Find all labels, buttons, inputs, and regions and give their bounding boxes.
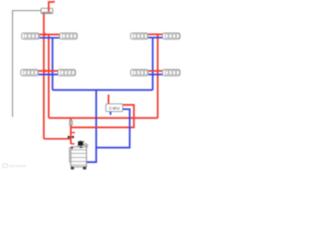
wire riser A red	[43, 14, 45, 139]
radiator R7	[131, 70, 149, 76]
svg-text:cad rysunek: cad rysunek	[9, 164, 27, 168]
wire feed from riser A red	[44, 138, 71, 140]
wire right return riser blue	[152, 38, 154, 90]
wire boiler inlet stub red	[71, 143, 75, 145]
flow arrow row2	[45, 69, 48, 72]
wire wall line gray	[13, 11, 42, 117]
cylinder CWU box	[106, 104, 123, 112]
expansion tank T1	[41, 8, 53, 13]
radiator R3	[131, 33, 149, 39]
svg-text:C.W.U: C.W.U	[109, 107, 120, 111]
burner assembly on boiler top	[78, 141, 83, 146]
wire main flow header red	[49, 117, 158, 119]
valve V2 bowtie at boiler inlet	[68, 136, 74, 139]
radiator R6	[58, 70, 76, 76]
wire left return riser blue	[52, 38, 54, 90]
flow arrow row1	[45, 33, 48, 36]
wire return collector blue	[53, 89, 153, 91]
wire row2 right flow red	[148, 70, 162, 72]
valve V1 on feed drop	[69, 121, 72, 125]
wire row1 left flow red	[39, 34, 60, 36]
radiator R1	[22, 33, 39, 39]
wire CWU return blue	[96, 109, 130, 147]
wire right flow riser red	[157, 34, 159, 118]
radiator R4	[163, 33, 181, 39]
wire boiler feed drop red	[70, 118, 72, 144]
wire CWU bottom stub blue	[110, 112, 112, 115]
radiator R5	[21, 70, 39, 76]
wire row1 right flow red	[148, 33, 162, 35]
wire row2 left return blue	[38, 74, 58, 76]
wire row2 left flow red	[38, 70, 58, 72]
wire row1 left return blue	[39, 37, 60, 39]
boiler B1	[70, 141, 89, 170]
boiler legs	[71, 167, 74, 170]
radiator R2	[60, 33, 77, 39]
wire CWU cold feed stub red	[108, 95, 110, 104]
wire riser B red	[48, 34, 50, 118]
radiator R8	[163, 70, 181, 76]
wire row2 right return blue	[148, 74, 162, 76]
vent pipe red	[49, 1, 55, 12]
wire stub red	[71, 132, 75, 134]
wire row1 right return blue	[148, 37, 162, 39]
wire CWU flow branch red	[71, 105, 134, 128]
wire boiler return drop blue	[87, 90, 97, 162]
watermark	[3, 164, 7, 168]
boiler handle	[69, 147, 71, 163]
